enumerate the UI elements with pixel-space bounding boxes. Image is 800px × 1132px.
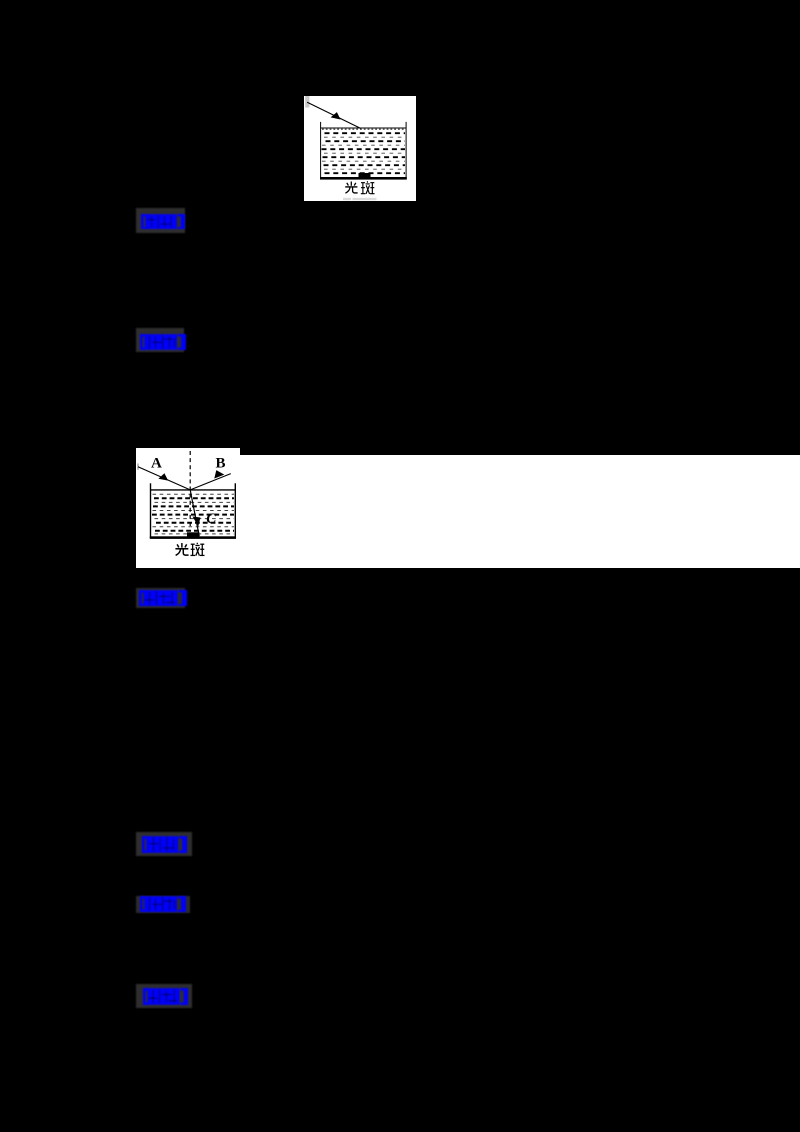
water dashes	[152, 494, 234, 534]
tank right wall	[405, 121, 407, 178]
light spot on bottom	[187, 532, 199, 537]
figure F2: answer diagram (reflection + refraction in beaker)	[136, 448, 240, 567]
label L6 blue 【点评】 on dark highlight	[136, 984, 192, 1008]
svg-text:A: A	[151, 456, 162, 472]
label L1 blue 【考点】 on dark highlight	[136, 208, 185, 233]
arrowhead reflected	[214, 470, 224, 478]
tank bottom	[320, 177, 407, 180]
water surface	[151, 489, 236, 491]
label L3 blue 【解答】 on dark highlight	[136, 588, 185, 608]
light spot on bottom	[359, 173, 371, 177]
text 光斑 under tank (char 斑)	[191, 543, 205, 556]
tank left wall	[320, 121, 322, 178]
scan artifact left edge	[137, 464, 139, 470]
water surface	[321, 127, 407, 129]
text 光斑 under tank (char 斑)	[361, 181, 375, 194]
normal (dashed vertical)	[189, 451, 191, 527]
tank right wall	[234, 483, 236, 538]
label L4 blue 【答案】 on dark highlight	[136, 832, 192, 856]
faint scan smudge bottom	[343, 197, 351, 199]
arrowhead refracted	[193, 517, 201, 527]
refracted ray C	[190, 490, 199, 536]
incident ray A	[138, 467, 190, 490]
text 光斑 under tank (char 光)	[175, 543, 188, 555]
white band behind answer figure row	[136, 455, 800, 568]
incident ray	[307, 102, 361, 128]
arrowhead incident	[158, 473, 168, 480]
scan artifact top-left	[305, 96, 309, 108]
svg-text:B: B	[216, 456, 226, 472]
arrowhead on incident ray	[331, 112, 341, 119]
text 光斑 under tank (drawn strokes, char 光)	[345, 181, 357, 193]
tank left wall	[150, 483, 152, 538]
label L2 blue 【分析】 on dark highlight	[136, 328, 184, 352]
water dashes	[322, 129, 406, 173]
label L5 blue 【考点】 on dark highlight	[136, 896, 190, 913]
reflected ray B	[190, 474, 231, 490]
tank bottom	[150, 536, 236, 539]
figure F1: question diagram (beaker of water, incident light ray, light spot)	[304, 96, 416, 201]
